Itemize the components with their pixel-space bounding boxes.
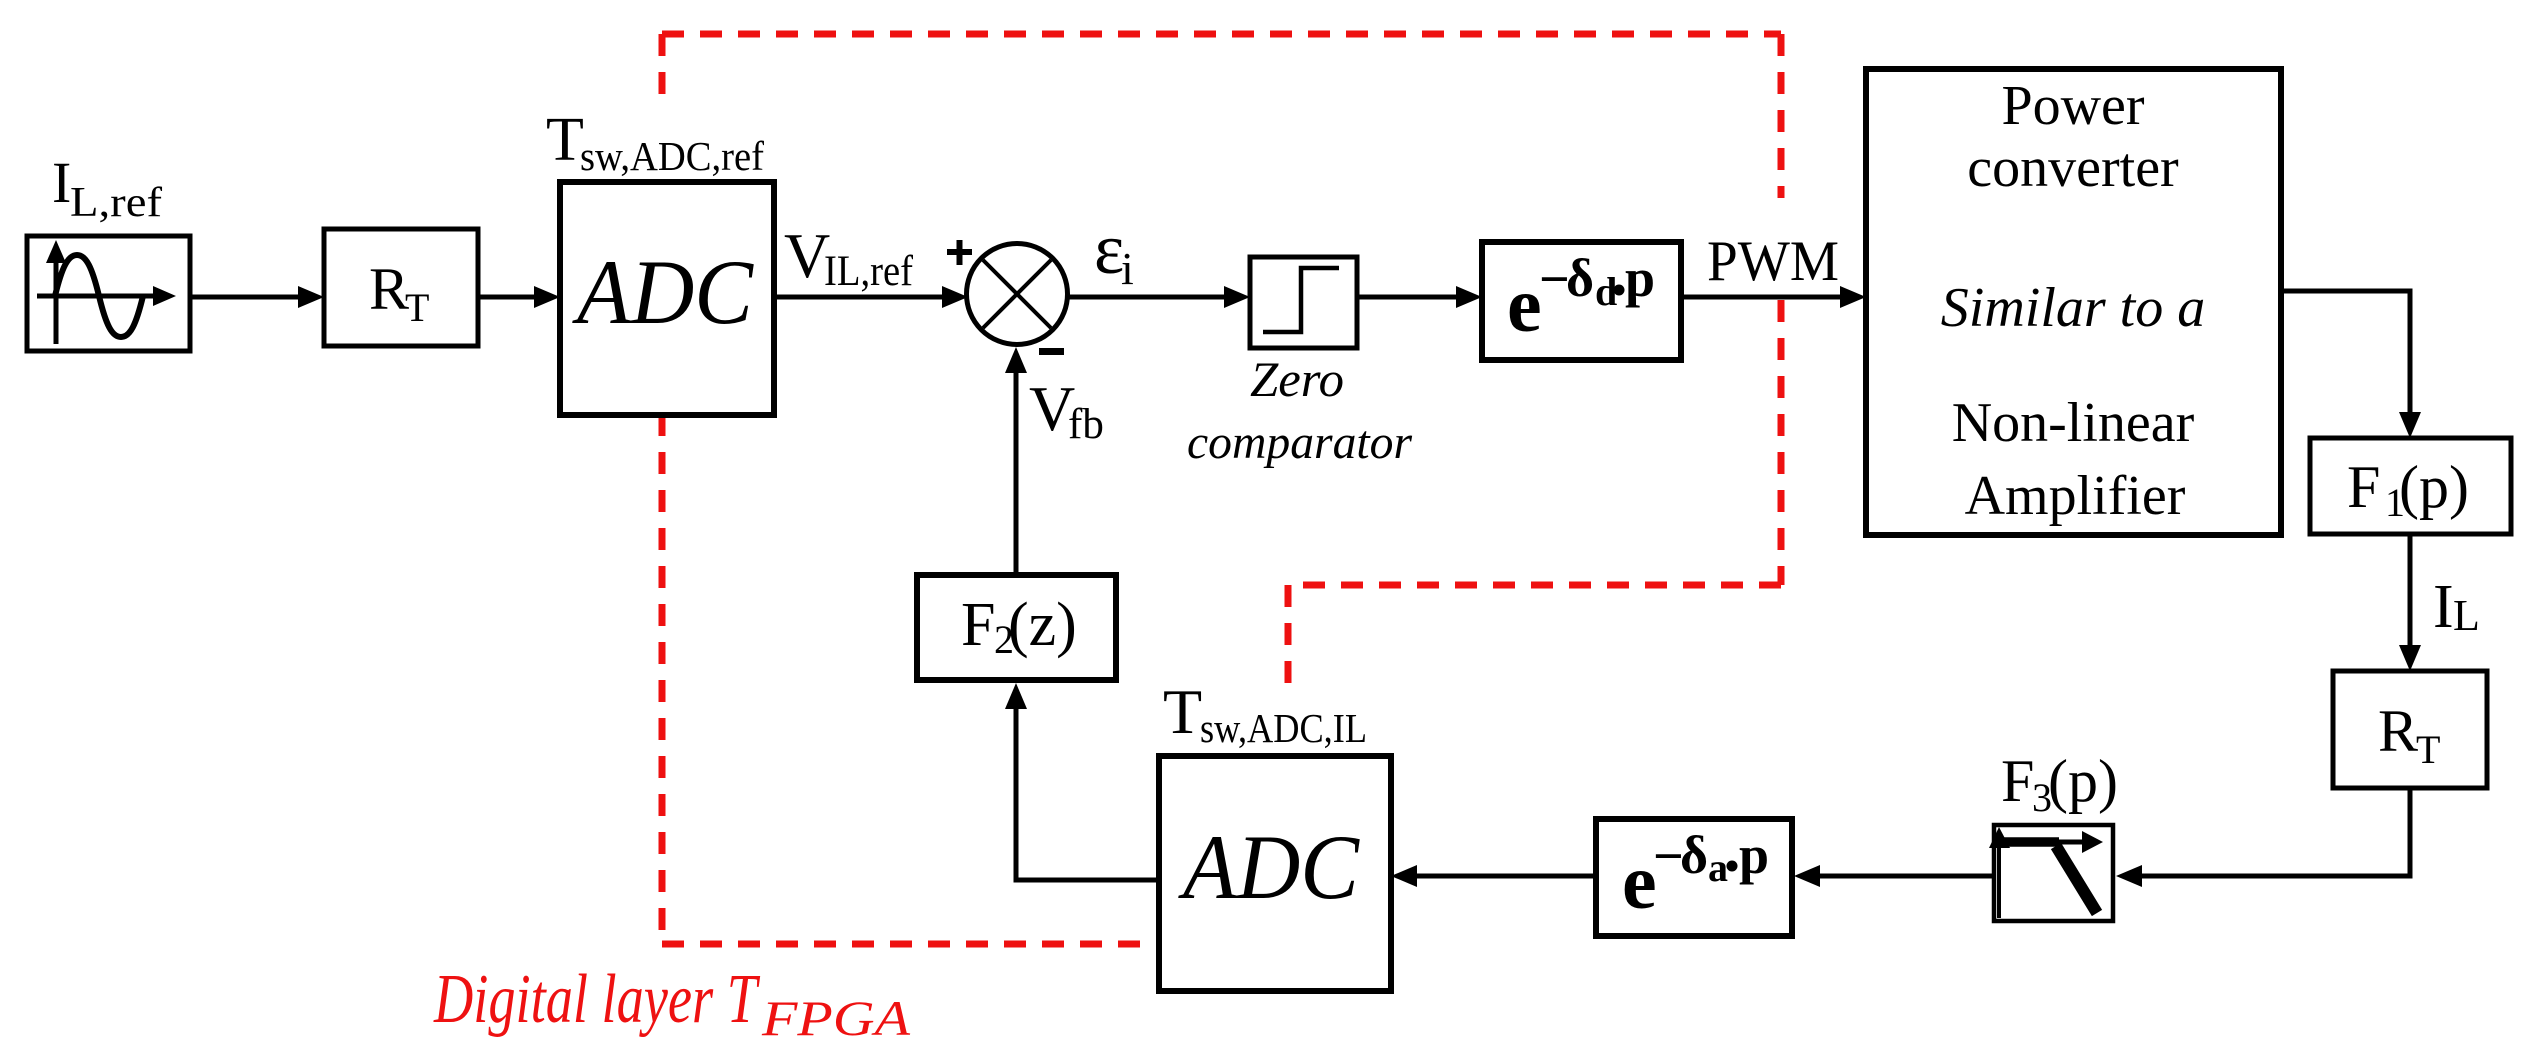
- svg-text:ε: ε: [1094, 209, 1124, 289]
- svg-text:i: i: [1121, 243, 1134, 294]
- svg-text:T: T: [546, 106, 584, 174]
- svg-text:p: p: [1625, 248, 1655, 308]
- svg-text:F: F: [2001, 748, 2034, 814]
- svg-text:L: L: [2453, 591, 2480, 640]
- svg-text:FPGA: FPGA: [761, 990, 911, 1046]
- svg-text:R: R: [2378, 698, 2418, 764]
- svg-text:F: F: [2347, 454, 2380, 520]
- svg-text:Similar to a: Similar to a: [1941, 277, 2205, 339]
- svg-text:(z): (z): [1008, 591, 1077, 659]
- svg-text:Digital layer T: Digital layer T: [433, 961, 761, 1038]
- svg-text:fb: fb: [1068, 401, 1104, 448]
- svg-text:δ: δ: [1680, 825, 1708, 885]
- svg-text:Amplifier: Amplifier: [1965, 465, 2186, 527]
- svg-text:e: e: [1507, 261, 1542, 348]
- svg-text:sw,ADC,IL: sw,ADC,IL: [1200, 705, 1367, 751]
- svg-text:IL,ref: IL,ref: [824, 248, 914, 295]
- svg-text:(p): (p): [2048, 748, 2118, 814]
- svg-text:converter: converter: [1967, 137, 2179, 199]
- svg-text:comparator: comparator: [1187, 416, 1412, 469]
- svg-text:Power: Power: [2001, 75, 2144, 137]
- svg-text:δ: δ: [1566, 248, 1594, 308]
- svg-text:Non-linear: Non-linear: [1952, 392, 2195, 454]
- svg-text:ADC: ADC: [571, 241, 754, 343]
- svg-text:L,ref: L,ref: [70, 180, 162, 226]
- svg-text:Zero: Zero: [1250, 351, 1344, 407]
- svg-text:a: a: [1708, 845, 1728, 890]
- svg-text:I: I: [2433, 573, 2454, 641]
- svg-text:R: R: [369, 256, 409, 322]
- svg-text:sw,ADC,ref: sw,ADC,ref: [580, 133, 764, 179]
- svg-text:p: p: [1739, 825, 1769, 885]
- svg-text:e: e: [1622, 838, 1657, 925]
- svg-text:(p): (p): [2399, 454, 2469, 520]
- svg-text:I: I: [52, 150, 71, 215]
- svg-text:PWM: PWM: [1707, 230, 1839, 293]
- svg-text:ADC: ADC: [1177, 816, 1360, 918]
- svg-text:T: T: [405, 285, 429, 330]
- svg-text:T: T: [1163, 676, 1202, 747]
- svg-text:F: F: [961, 591, 995, 659]
- svg-text:T: T: [2416, 727, 2440, 772]
